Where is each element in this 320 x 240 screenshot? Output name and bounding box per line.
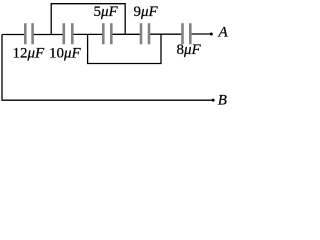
svg-text:9μF: 9μF: [134, 4, 159, 20]
svg-text:5μF: 5μF: [94, 4, 119, 20]
svg-text:B: B: [218, 93, 227, 109]
svg-text:8μF: 8μF: [177, 42, 202, 58]
svg-text:10μF: 10μF: [49, 46, 82, 62]
svg-text:A: A: [218, 25, 229, 41]
svg-text:12μF: 12μF: [13, 46, 46, 62]
